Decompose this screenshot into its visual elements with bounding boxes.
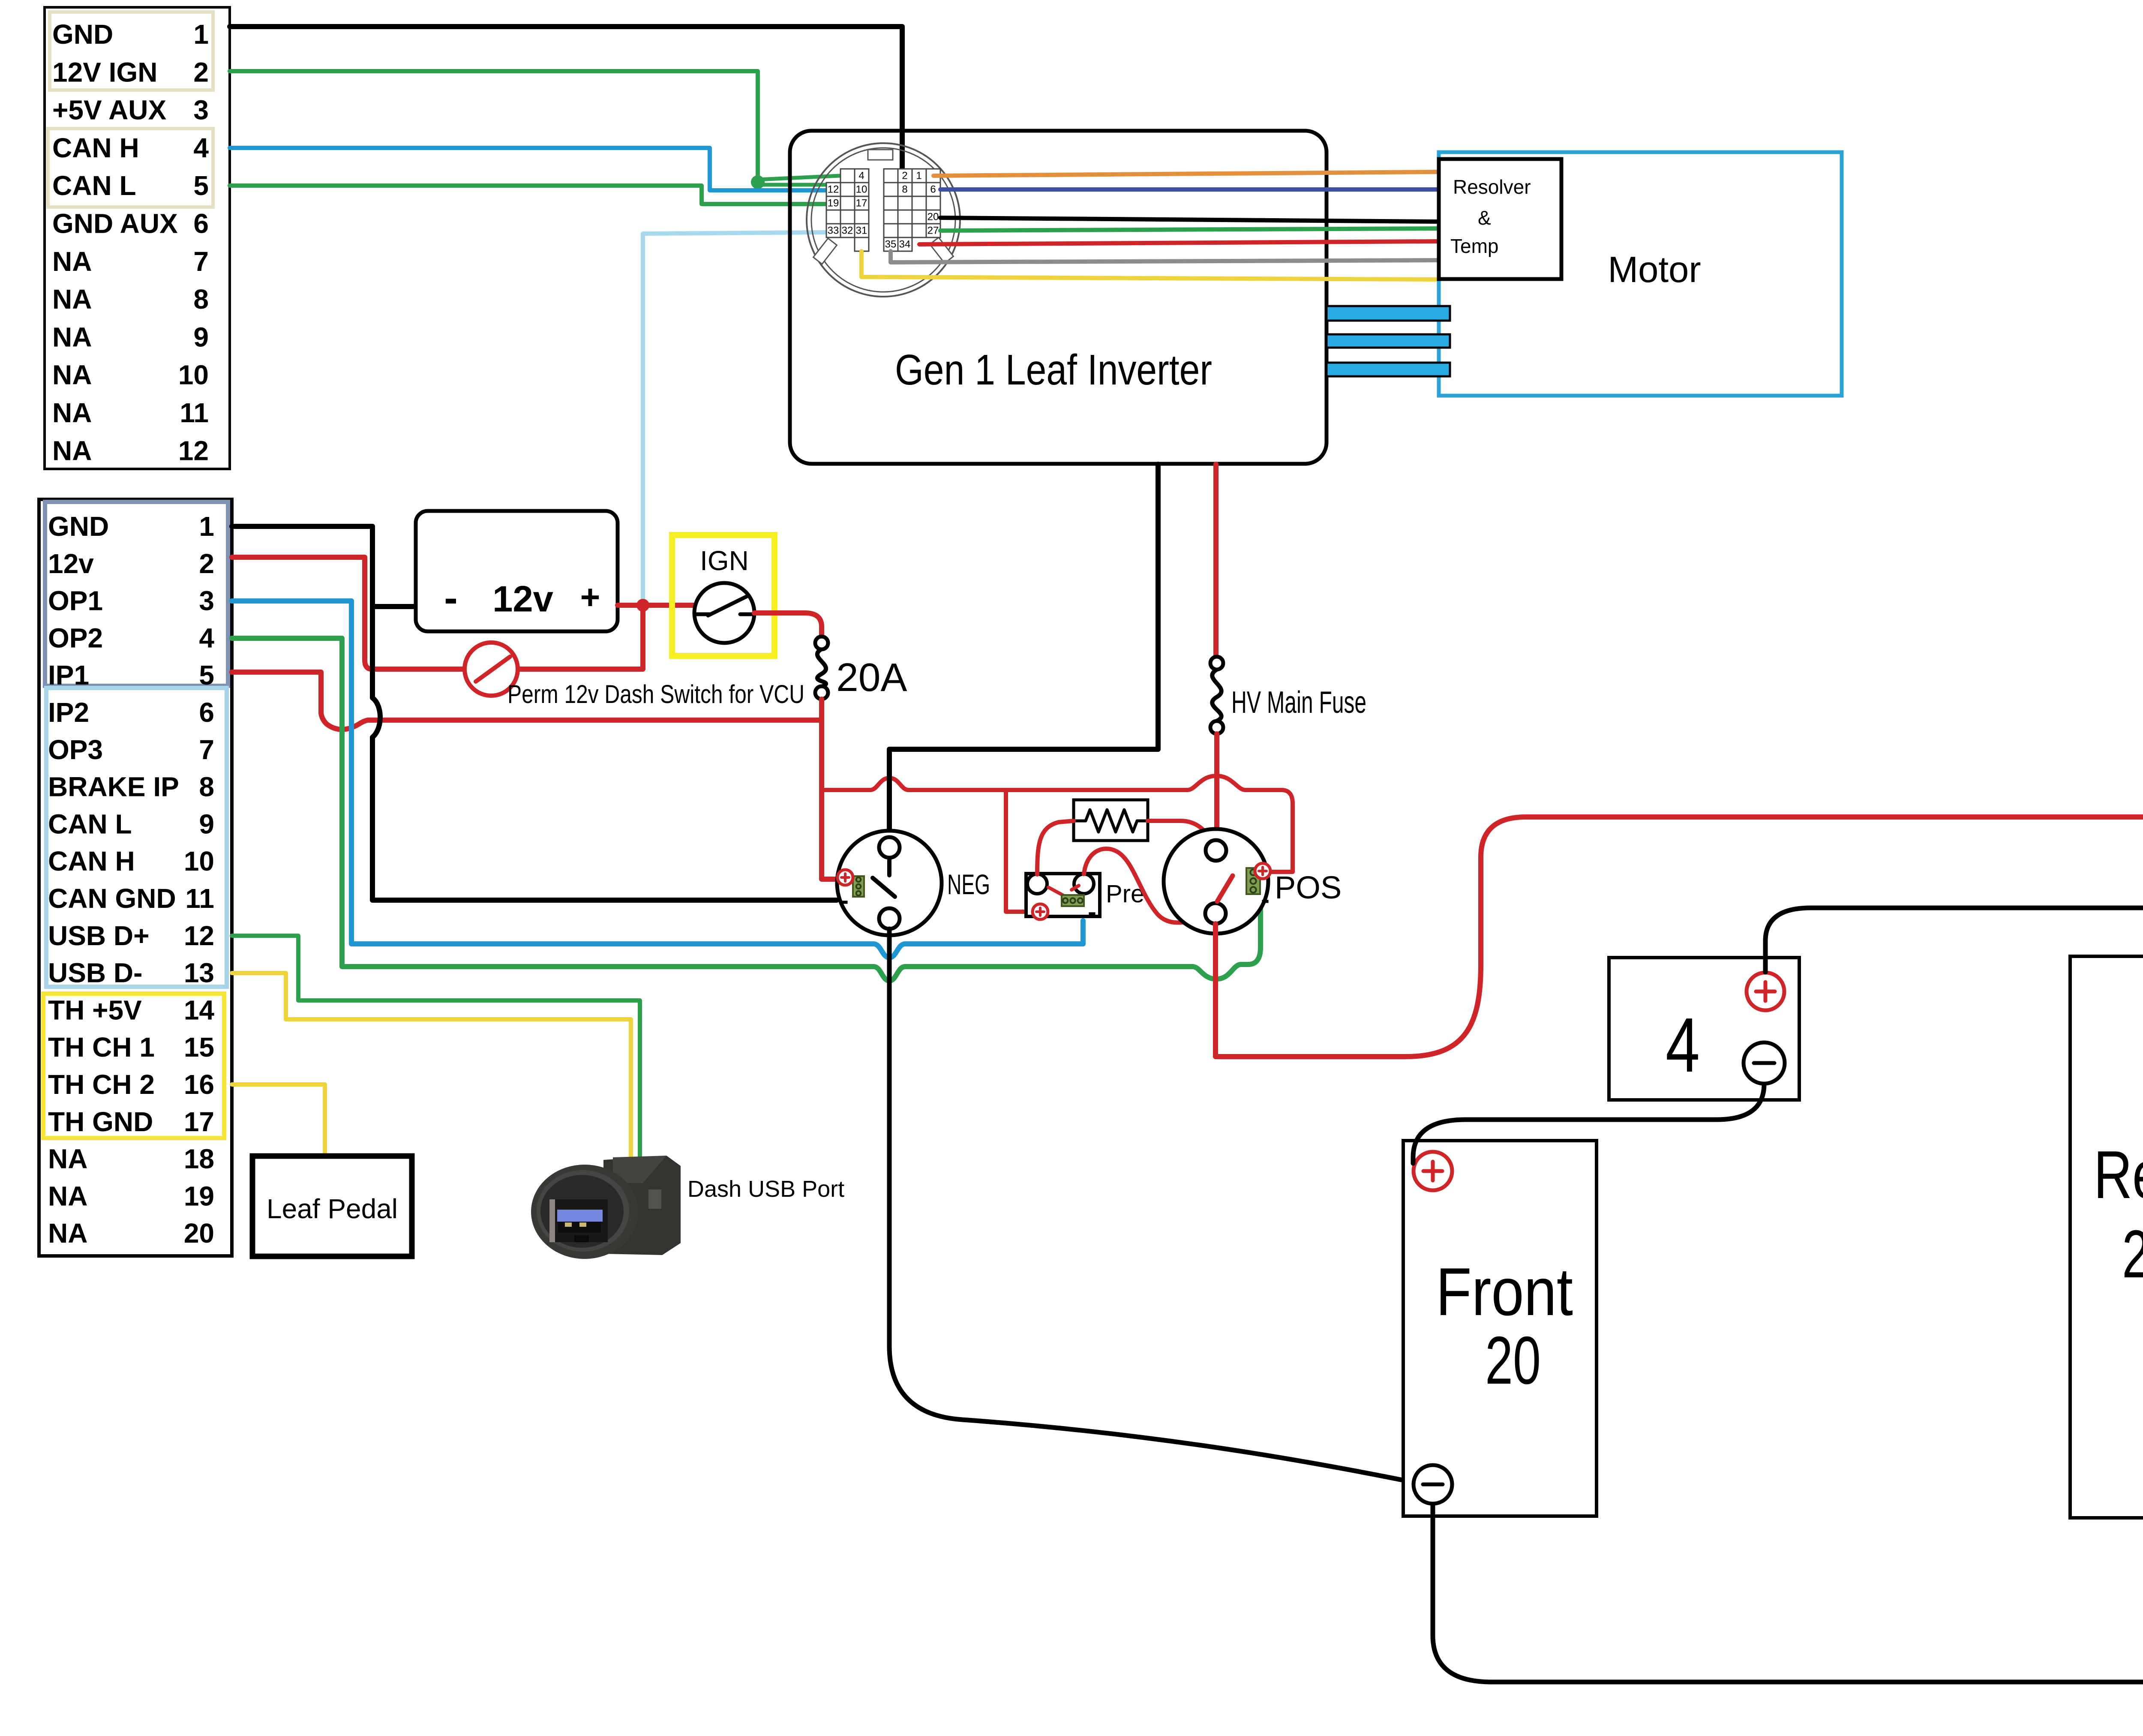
svg-text:35: 35 — [885, 239, 897, 250]
svg-text:GND: GND — [52, 19, 113, 50]
svg-text:6: 6 — [199, 697, 214, 728]
svg-text:Leaf Pedal: Leaf Pedal — [267, 1193, 398, 1224]
svg-text:IP2: IP2 — [48, 697, 89, 728]
svg-text:11: 11 — [185, 883, 214, 914]
svg-text:-: - — [1088, 898, 1096, 926]
svg-text:Rear: Rear — [2094, 1137, 2143, 1213]
svg-text:3: 3 — [199, 586, 214, 616]
svg-text:4: 4 — [1666, 1002, 1700, 1088]
svg-text:HV Main Fuse: HV Main Fuse — [1231, 685, 1366, 720]
svg-text:Resolver: Resolver — [1453, 176, 1531, 198]
svg-text:10: 10 — [856, 184, 867, 195]
svg-text:6: 6 — [930, 184, 936, 195]
svg-text:2: 2 — [193, 57, 209, 87]
svg-text:IP1: IP1 — [48, 660, 89, 691]
svg-text:Temp: Temp — [1450, 235, 1498, 257]
svg-text:20: 20 — [184, 1218, 214, 1249]
svg-text:9: 9 — [193, 321, 209, 352]
svg-text:12: 12 — [828, 184, 839, 195]
svg-text:TH +5V: TH +5V — [48, 994, 142, 1025]
svg-text:NA: NA — [52, 246, 92, 277]
svg-text:NEG: NEG — [947, 868, 990, 900]
svg-text:8: 8 — [199, 772, 214, 802]
svg-text:Perm 12v Dash Switch for VCU: Perm 12v Dash Switch for VCU — [507, 680, 804, 709]
svg-text:NA: NA — [48, 1144, 87, 1174]
svg-text:1: 1 — [916, 170, 921, 182]
svg-text:NA: NA — [52, 397, 92, 428]
svg-text:24: 24 — [2122, 1216, 2143, 1292]
svg-text:27: 27 — [927, 225, 939, 237]
svg-text:20A: 20A — [836, 655, 907, 700]
svg-text:TH GND: TH GND — [48, 1106, 153, 1137]
svg-text:31: 31 — [856, 225, 867, 237]
svg-text:Dash USB Port: Dash USB Port — [687, 1176, 844, 1202]
svg-text:34: 34 — [899, 239, 911, 250]
svg-text:TH CH 2: TH CH 2 — [48, 1069, 155, 1100]
svg-text:CAN H: CAN H — [52, 132, 139, 163]
svg-text:7: 7 — [193, 246, 209, 277]
svg-text:CAN GND: CAN GND — [48, 883, 176, 914]
svg-text:17: 17 — [184, 1106, 214, 1137]
svg-text:IGN: IGN — [700, 545, 749, 576]
svg-text:20: 20 — [927, 211, 939, 223]
svg-text:NA: NA — [48, 1180, 87, 1211]
svg-text:12v: 12v — [492, 579, 553, 620]
svg-text:12v: 12v — [48, 548, 94, 579]
svg-text:7: 7 — [199, 734, 214, 765]
svg-text:10: 10 — [178, 360, 209, 390]
svg-text:GND AUX: GND AUX — [52, 208, 178, 239]
svg-text:19: 19 — [184, 1180, 214, 1211]
svg-text:16: 16 — [184, 1069, 214, 1100]
svg-text:32: 32 — [842, 225, 853, 237]
svg-text:Front: Front — [1436, 1254, 1573, 1330]
svg-text:1: 1 — [193, 19, 209, 50]
svg-text:3: 3 — [193, 95, 209, 126]
svg-text:17: 17 — [856, 198, 867, 209]
svg-text:6: 6 — [193, 208, 209, 239]
svg-text:USB D+: USB D+ — [48, 920, 150, 951]
svg-text:9: 9 — [199, 808, 214, 839]
svg-text:CAN L: CAN L — [52, 170, 136, 201]
svg-text:10: 10 — [184, 846, 214, 877]
svg-text:15: 15 — [184, 1032, 214, 1063]
svg-text:Motor: Motor — [1608, 249, 1701, 290]
svg-text:1: 1 — [199, 511, 214, 542]
svg-text:12: 12 — [178, 435, 209, 466]
svg-text:5: 5 — [199, 660, 214, 691]
svg-text:13: 13 — [184, 958, 214, 988]
svg-text:12: 12 — [184, 920, 214, 951]
svg-text:OP2: OP2 — [48, 622, 103, 653]
svg-text:NA: NA — [52, 435, 92, 466]
svg-text:8: 8 — [902, 184, 907, 195]
svg-text:GND: GND — [48, 511, 109, 542]
svg-text:-: - — [840, 886, 849, 915]
svg-text:Gen 1 Leaf Inverter: Gen 1 Leaf Inverter — [895, 346, 1212, 394]
svg-text:CAN L: CAN L — [48, 808, 132, 839]
svg-text:OP1: OP1 — [48, 586, 103, 616]
svg-text:14: 14 — [184, 994, 215, 1025]
svg-text:NA: NA — [52, 321, 92, 352]
svg-text:11: 11 — [180, 397, 209, 428]
svg-text:20: 20 — [1485, 1323, 1541, 1398]
svg-text:19: 19 — [828, 198, 839, 209]
svg-text:+: + — [580, 578, 600, 616]
svg-text:18: 18 — [184, 1144, 214, 1174]
svg-text:+5V AUX: +5V AUX — [52, 95, 167, 126]
svg-text:4: 4 — [193, 132, 209, 163]
svg-text:NA: NA — [52, 284, 92, 315]
svg-text:5: 5 — [193, 170, 209, 201]
svg-text:8: 8 — [193, 284, 209, 315]
svg-text:33: 33 — [828, 225, 839, 237]
svg-text:BRAKE IP: BRAKE IP — [48, 772, 179, 802]
svg-text:2: 2 — [199, 548, 214, 579]
svg-text:2: 2 — [902, 170, 907, 182]
svg-text:4: 4 — [199, 622, 214, 653]
svg-text:USB D-: USB D- — [48, 958, 142, 988]
svg-text:&: & — [1478, 207, 1491, 229]
svg-text:-: - — [1261, 885, 1270, 914]
svg-text:NA: NA — [48, 1218, 87, 1249]
svg-text:12V IGN: 12V IGN — [52, 57, 157, 87]
svg-text:NA: NA — [52, 360, 92, 390]
svg-text:POS: POS — [1275, 870, 1342, 905]
svg-text:TH CH 1: TH CH 1 — [48, 1032, 155, 1063]
svg-text:CAN H: CAN H — [48, 846, 135, 877]
svg-text:-: - — [444, 575, 458, 621]
svg-text:4: 4 — [858, 170, 864, 182]
svg-text:OP3: OP3 — [48, 734, 103, 765]
